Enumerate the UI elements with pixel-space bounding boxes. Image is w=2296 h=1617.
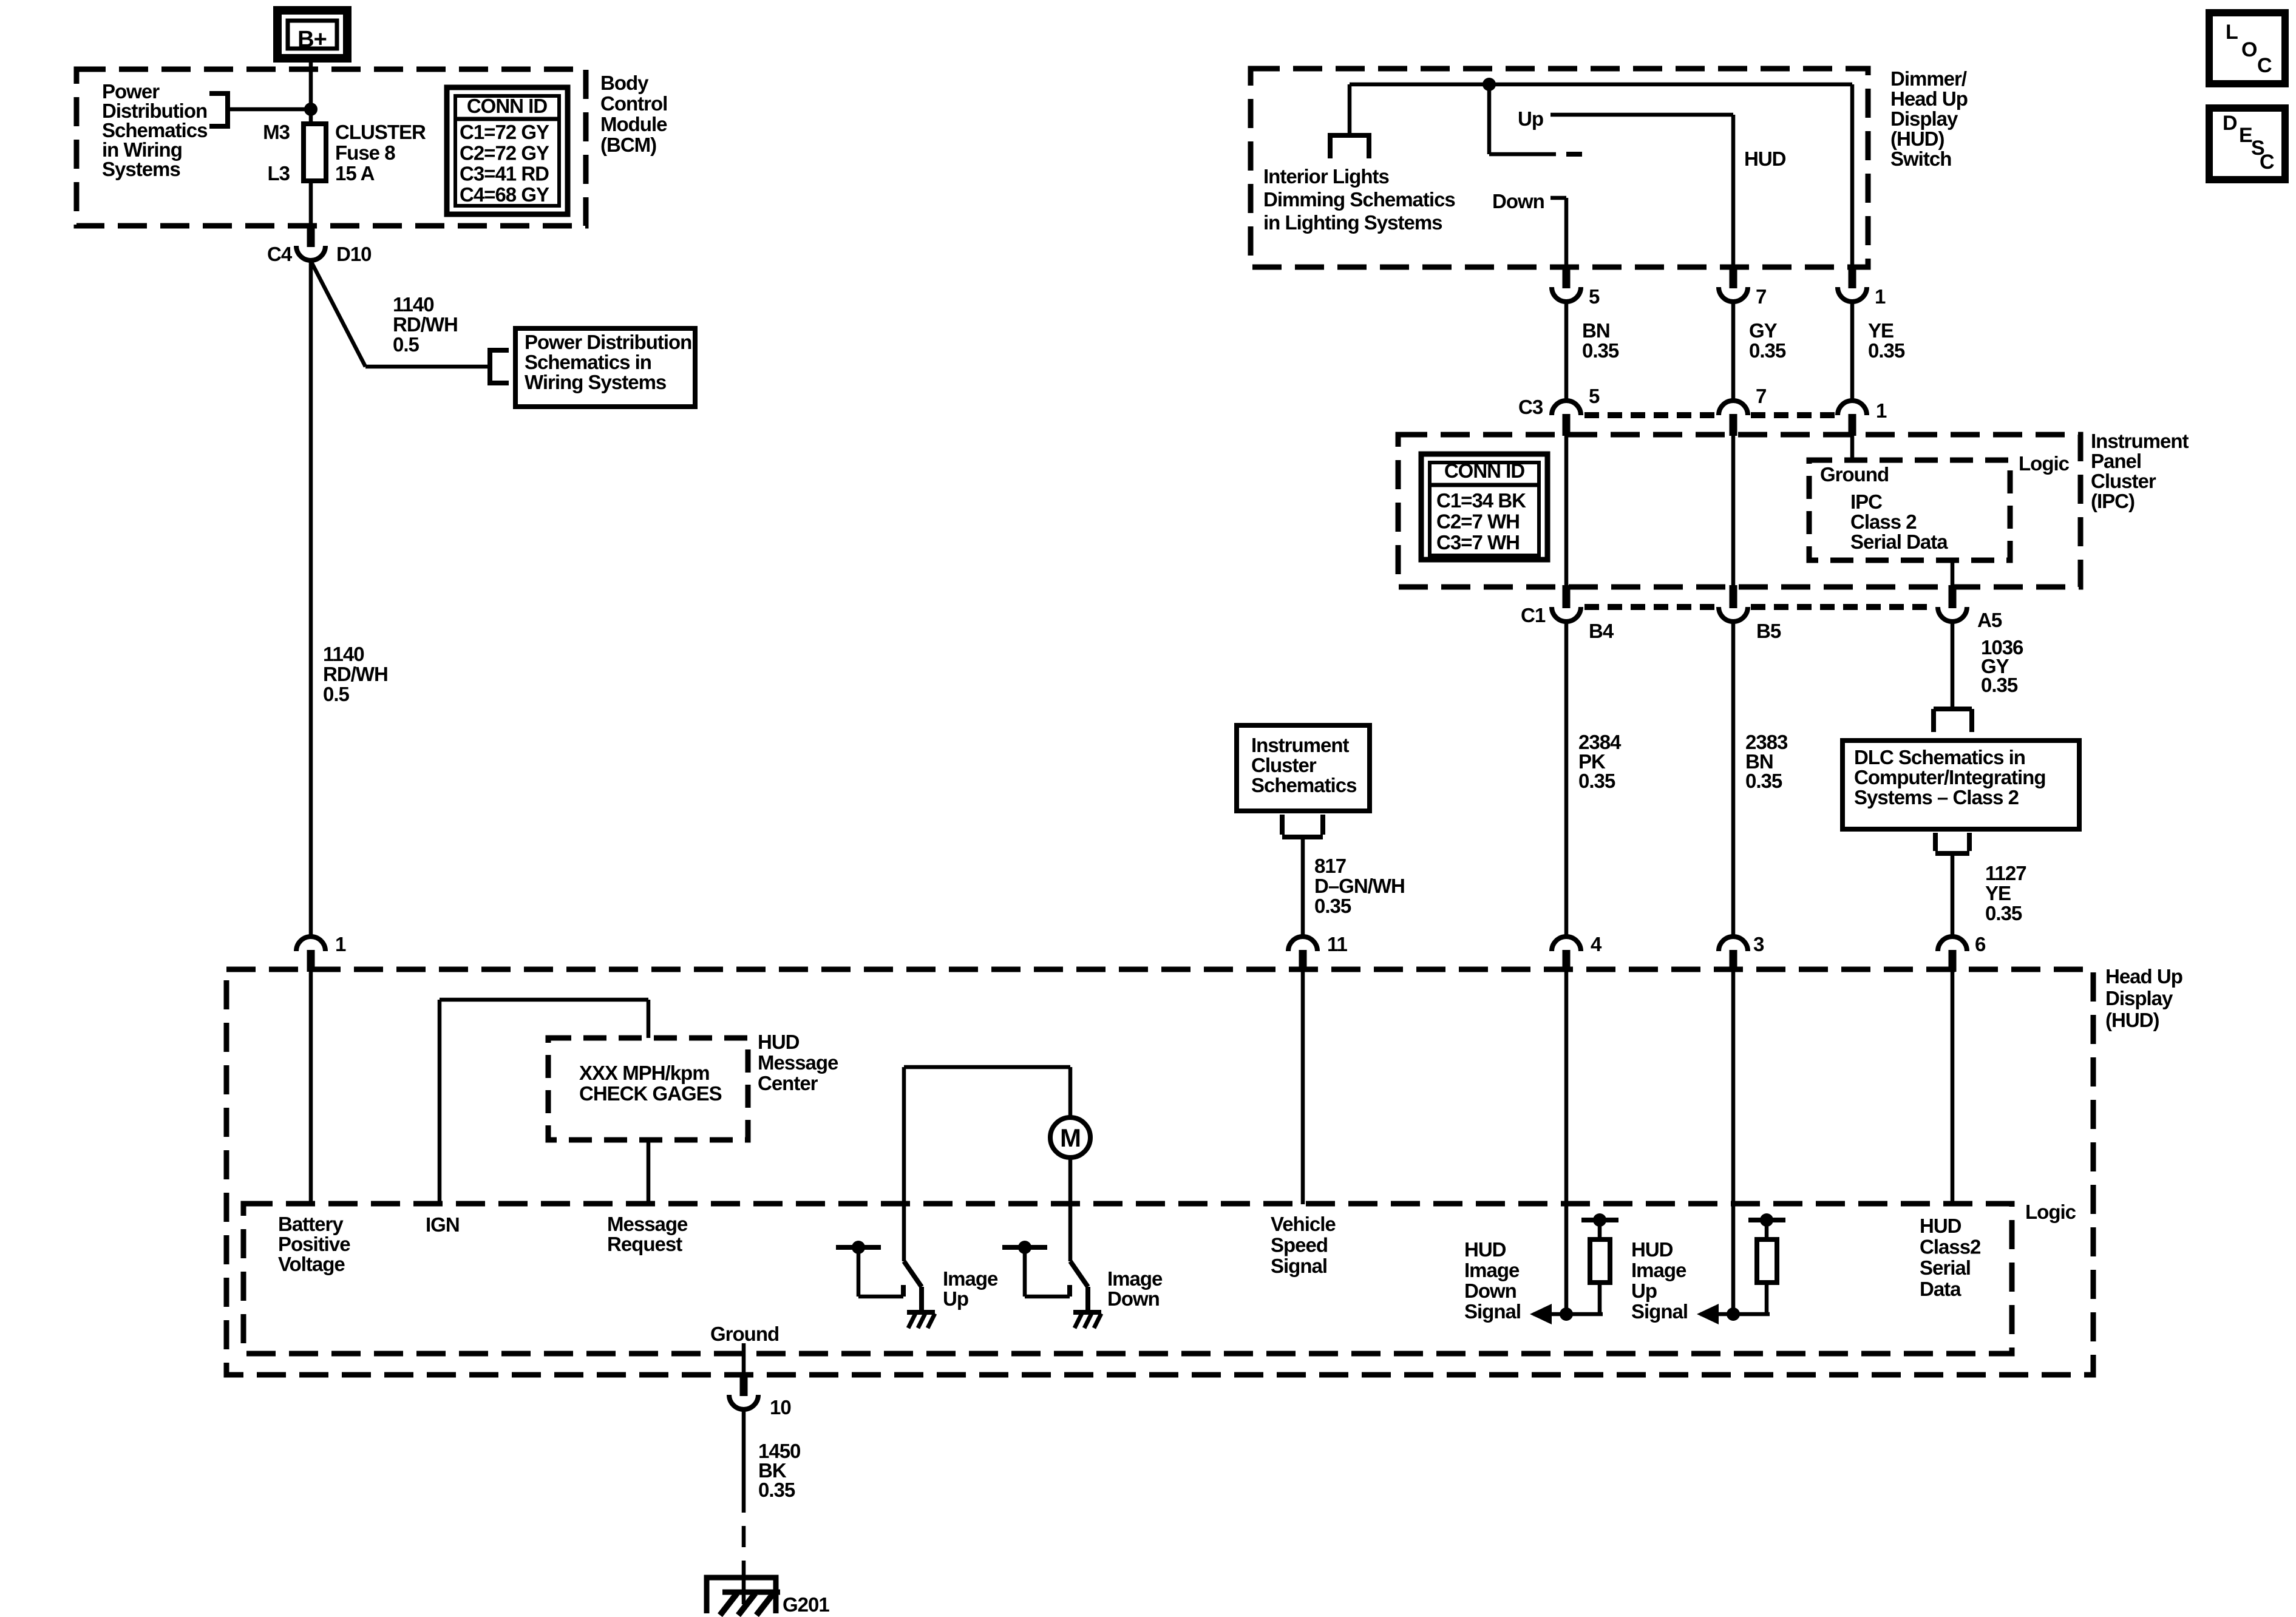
label Body Control Module (BCM) [600,72,667,156]
svg-text:817: 817 [1314,855,1346,877]
label 1140 RD/WH 0.5 (branch) [393,293,458,356]
svg-text:D10: D10 [336,243,372,265]
svg-text:RD/WH: RD/WH [393,313,458,336]
svg-text:0.35: 0.35 [1749,339,1786,362]
svg-text:Schematics: Schematics [1251,774,1356,796]
label 4 (HUD pin) [1591,933,1602,955]
arrow image up signal [1697,1304,1770,1324]
wire 1140 RD/WH 0.5 main vertical [309,259,313,937]
resistor pull-up (image down) [1581,1213,1618,1314]
connector table CONN ID (IPC) [1421,454,1547,560]
svg-text:15 A: 15 A [335,162,375,185]
wire 1140 RD/WH 0.5 diagonal branch [311,261,490,367]
svg-text:Serial: Serial [1920,1256,1971,1279]
connector pin A5 [1938,585,1967,622]
label Up [1518,107,1543,130]
wire motor loop [904,1067,1070,1261]
label GY 0.35 [1749,319,1786,362]
module box Head Up Display HUD dashed outline [226,969,2093,1375]
svg-text:G201: G201 [783,1593,829,1616]
svg-text:C1: C1 [1521,604,1546,626]
connector HUD pin 4 [1552,937,1581,972]
svg-text:Signal: Signal [1271,1255,1327,1277]
reference box Instrument Cluster Schematics [1237,725,1370,811]
svg-text:D: D [2223,112,2237,135]
wire B+ to fuse [309,58,313,124]
svg-text:Class 2: Class 2 [1850,510,1917,533]
svg-text:0.35: 0.35 [1745,770,1782,792]
svg-text:0.35: 0.35 [1868,339,1905,362]
svg-text:C3=7 WH: C3=7 WH [1436,531,1520,554]
label HUD [1744,147,1786,170]
connector table CONN ID (BCM) [447,87,568,214]
connector pin 10 ground [729,1373,758,1409]
svg-text:Instrument: Instrument [1251,734,1350,756]
svg-text:Image: Image [1464,1259,1520,1281]
svg-text:Vehicle: Vehicle [1271,1213,1336,1235]
label 1450 BK 0.35 [758,1440,800,1501]
svg-text:Center: Center [758,1072,818,1094]
resistor pull-up (image up) [1748,1213,1785,1314]
svg-text:0.35: 0.35 [1578,770,1615,792]
label Ground (HUD) [710,1323,779,1345]
svg-text:Down: Down [1464,1280,1517,1302]
label HUD Image Up Signal [1631,1238,1688,1323]
label HUD Class2 Serial Data [1920,1215,1981,1300]
svg-text:C3: C3 [1518,396,1543,418]
svg-text:C1=34 BK: C1=34 BK [1436,489,1526,512]
label B4 [1589,620,1614,642]
svg-text:YE: YE [1985,882,2011,904]
svg-text:CHECK GAGES: CHECK GAGES [579,1082,722,1105]
label 1 (switch pin) [1875,285,1886,308]
svg-text:DLC Schematics in: DLC Schematics in [1854,746,2025,768]
label XXX MPH/kpm CHECK GAGES [579,1062,722,1105]
connector C4 pin D10 [296,224,325,260]
connector HUD pin 1 [296,937,325,972]
svg-text:0.35: 0.35 [1314,895,1351,917]
wire 2384 PK 0.35 [1564,620,1569,937]
svg-text:Data: Data [1920,1278,1961,1300]
reference box DLC Schematics in Computer/Integrating Systems - Class 2 [1843,741,2079,829]
label Dimmer/ Head Up Display (HUD) Switch [1890,67,1968,170]
svg-text:C3=41 RD: C3=41 RD [460,163,549,185]
connector row C3 dashed line [1584,412,1835,418]
svg-text:Signal: Signal [1631,1300,1688,1323]
connector C3 pin 5 [1552,401,1581,436]
svg-text:Logic: Logic [2025,1201,2076,1223]
wire 1036 GY 0.35 [1951,620,1955,708]
wire HUD class2 serial data [1951,971,1955,1204]
svg-text:HUD: HUD [1464,1238,1506,1261]
logic box (HUD) dashed outline [243,1204,2012,1354]
wire bracket to node M3 [228,107,311,112]
svg-text:Module: Module [600,113,667,135]
svg-text:Positive: Positive [278,1233,350,1255]
svg-text:M3: M3 [263,121,290,143]
svg-text:IPC: IPC [1850,490,1882,513]
svg-text:1: 1 [1876,399,1887,422]
svg-text:in Lighting Systems: in Lighting Systems [1263,211,1442,234]
label Message Request [607,1213,688,1255]
label Head Up Display (HUD) [2105,965,2182,1031]
label C1 [1521,604,1546,626]
label 1127 YE 0.35 [1985,862,2026,924]
wire 1450 BK 0.35 [742,1408,746,1604]
svg-text:(HUD): (HUD) [1890,127,1944,150]
connector C1 pin B5 [1719,585,1748,622]
svg-text:Message: Message [758,1051,838,1074]
label C3 [1518,396,1543,418]
svg-text:HUD: HUD [758,1031,800,1053]
connector row C1 dashed line [1584,604,1934,610]
svg-text:(HUD): (HUD) [2105,1009,2159,1031]
label 2383 BN 0.35 [1745,731,1788,792]
svg-text:CLUSTER: CLUSTER [335,121,426,143]
connector pin 1 (switch) [1838,265,1867,302]
label Power Distribution Schematics in Wiring Systems (BCM) [102,80,207,180]
wire switch common top rail [1350,83,1852,87]
label G201 [783,1593,829,1616]
wire to Interior Lights bracket [1348,84,1352,135]
svg-text:Image: Image [1631,1259,1686,1281]
svg-text:IGN: IGN [426,1213,460,1236]
svg-text:4: 4 [1591,933,1602,955]
svg-text:Image: Image [1107,1267,1163,1290]
svg-text:Interior Lights: Interior Lights [1263,165,1389,188]
svg-text:C4=68 GY: C4=68 GY [460,183,549,206]
label Ground (IPC) [1820,463,1889,486]
svg-text:Down: Down [1107,1287,1160,1310]
svg-text:Dimmer/: Dimmer/ [1890,67,1967,90]
label 1036 GY 0.35 [1981,636,2023,696]
label B5 [1756,620,1781,642]
bracket to DLC box (top) [1934,709,1972,732]
svg-text:1140: 1140 [323,643,364,665]
svg-text:6: 6 [1975,933,1986,955]
svg-text:Battery: Battery [278,1213,344,1235]
label 5 (C3) [1589,385,1600,407]
svg-text:5: 5 [1589,385,1600,407]
svg-text:Ground: Ground [710,1323,779,1345]
label 5 (switch pin) [1589,285,1600,308]
label Logic (IPC) [2019,452,2070,475]
svg-text:0.35: 0.35 [1985,902,2022,924]
connector C3 pin 1 [1838,401,1867,436]
connector pin 7 (switch) [1719,265,1748,302]
fuse CLUSTER Fuse 8 15 A [304,124,326,181]
bracket to Interior Lights label [1330,135,1369,158]
svg-text:Computer/Integrating: Computer/Integrating [1854,766,2046,788]
label HUD Image Down Signal [1464,1238,1521,1323]
svg-text:GY: GY [1749,319,1778,342]
svg-text:B+: B+ [297,27,327,52]
svg-text:L: L [2226,21,2238,44]
svg-text:0.5: 0.5 [323,683,350,705]
svg-text:Display: Display [2105,987,2173,1009]
switch Image Up [836,1241,922,1312]
svg-text:0.35: 0.35 [1981,674,2018,696]
label 7 (C3) [1756,385,1766,407]
svg-text:Instrument: Instrument [2091,430,2189,452]
label 1 (C3) [1876,399,1887,422]
legend box LOC [2209,13,2285,84]
arrow image down signal [1530,1304,1603,1324]
label Vehicle Speed Signal [1271,1213,1336,1277]
label Battery Positive Voltage [278,1213,350,1275]
bracket to Power Distribution label [209,93,228,126]
bracket to Power Distribution Schematics box [490,350,509,383]
wire 817 D-GN/WH 0.35 [1301,837,1305,937]
wire ground stub (IPC) [1850,436,1855,460]
ground symbol (Image Down) [1073,1312,1101,1328]
wire Up contact to pin 7 [1550,115,1733,267]
svg-text:7: 7 [1756,285,1766,308]
wire YE to C3 [1850,302,1855,402]
ground symbol (Image Up) [907,1312,935,1328]
label Image Down [1107,1267,1163,1310]
label D10 [336,243,372,265]
svg-text:D–GN/WH: D–GN/WH [1314,875,1405,897]
svg-text:Up: Up [1631,1280,1657,1302]
svg-text:Voltage: Voltage [278,1253,345,1275]
display box HUD Message Center dashed outline [548,1038,748,1140]
module box Body Control Module BCM dashed outline [76,69,586,226]
svg-text:BN: BN [1582,319,1610,342]
svg-text:0.5: 0.5 [393,333,419,356]
svg-text:Up: Up [943,1287,968,1310]
wire HUD image down signal [1564,971,1569,1314]
svg-text:Head Up: Head Up [1890,87,1968,110]
svg-text:C2=72 GY: C2=72 GY [460,141,549,164]
svg-text:YE: YE [1868,319,1894,342]
svg-text:Dimming Schematics: Dimming Schematics [1263,188,1455,211]
svg-text:Up: Up [1518,107,1543,130]
wire battery feed inside HUD [309,971,313,1204]
junction dot switch common [1483,78,1496,91]
wire ground (HUD) [742,1343,746,1375]
svg-text:Wiring Systems: Wiring Systems [525,371,666,393]
svg-text:Switch: Switch [1890,147,1951,170]
wire 1127 YE 0.35 [1951,853,1955,937]
svg-text:Message: Message [607,1213,688,1235]
label 11 (HUD pin) [1327,933,1348,955]
wire GY to C3 [1731,302,1736,402]
label YE 0.35 [1868,319,1905,362]
svg-text:Display: Display [1890,107,1958,130]
junction dot node M3 feed [304,103,318,116]
svg-text:Cluster: Cluster [1251,754,1317,776]
wire IGN [440,1000,648,1204]
wire Down contact to pin 5 [1550,198,1566,267]
svg-text:Signal: Signal [1464,1300,1521,1323]
svg-text:Power Distribution: Power Distribution [525,331,691,353]
svg-text:RD/WH: RD/WH [323,663,388,685]
ground G201 symbol [707,1578,780,1615]
svg-text:11: 11 [1327,933,1348,955]
logic box (IPC) dashed outline [1809,460,2010,560]
connector HUD pin 11 [1288,937,1317,972]
svg-text:C: C [2257,54,2272,77]
svg-text:Systems: Systems [102,158,180,180]
label BN 0.35 [1582,319,1619,362]
reference box Power Distribution Schematics in Wiring Systems [515,328,695,407]
label 1 (HUD pin) [335,933,346,955]
connector HUD pin 3 [1719,937,1748,972]
svg-text:XXX MPH/kpm: XXX MPH/kpm [579,1062,710,1084]
svg-text:E: E [2239,124,2252,147]
svg-text:C2=7 WH: C2=7 WH [1436,510,1520,533]
wire vehicle speed signal [1301,971,1305,1204]
wire HUD pin 1 vertical [1850,84,1855,267]
svg-text:0.35: 0.35 [758,1479,795,1501]
svg-text:Serial Data: Serial Data [1850,531,1948,553]
power symbol B+ battery positive voltage [277,10,347,58]
module box Instrument Panel Cluster IPC dashed outline [1398,435,2080,587]
label L3 [267,162,290,185]
label 2384 PK 0.35 [1578,731,1622,792]
label 7 (switch pin) [1756,285,1766,308]
label Instrument Panel Cluster (IPC) [2091,430,2189,512]
svg-text:HUD: HUD [1920,1215,1961,1237]
svg-text:B4: B4 [1589,620,1614,642]
switch Image Down [1002,1241,1088,1312]
wire motor to image down switch [1068,1158,1073,1261]
svg-text:3: 3 [1753,933,1764,955]
label Down [1492,190,1544,212]
label IGN [426,1213,460,1236]
bracket from Instrument Cluster Schematics box [1282,815,1323,837]
svg-text:Schematics in: Schematics in [525,351,651,373]
svg-text:M: M [1060,1124,1081,1152]
label C4 [267,243,293,265]
wire HUD image up signal [1731,971,1736,1314]
svg-text:5: 5 [1589,285,1600,308]
wire 2383 BN 0.35 [1731,620,1736,937]
connector HUD pin 6 [1938,937,1967,972]
wire B5 inside IPC [1731,436,1736,586]
bracket from DLC box (bottom) [1935,833,1969,853]
svg-text:O: O [2241,38,2257,61]
svg-text:0.35: 0.35 [1582,339,1619,362]
label CLUSTER Fuse 8 15 A [335,121,426,185]
svg-text:Body: Body [600,72,649,94]
svg-text:(IPC): (IPC) [2091,490,2135,512]
svg-text:CONN ID: CONN ID [1444,459,1525,482]
svg-text:Head Up: Head Up [2105,965,2182,988]
label A5 [1977,609,2002,631]
svg-text:Ground: Ground [1820,463,1889,486]
legend box DESC [2209,108,2285,180]
label Logic (HUD) [2025,1201,2076,1223]
svg-text:B5: B5 [1756,620,1781,642]
switch wiper contact [1489,84,1582,154]
svg-text:Class2: Class2 [1920,1236,1981,1258]
label IPC Class 2 Serial Data [1850,490,1948,553]
svg-text:C1=72 GY: C1=72 GY [460,121,549,143]
svg-text:A5: A5 [1977,609,2002,631]
label HUD Message Center [758,1031,838,1094]
connector C3 pin 7 [1719,401,1748,436]
svg-text:C: C [2260,151,2274,174]
motor M [1050,1117,1090,1158]
wire Message Request [647,1140,651,1204]
svg-text:Cluster: Cluster [2091,470,2156,492]
svg-text:Speed: Speed [1271,1234,1328,1256]
svg-text:L3: L3 [267,162,290,185]
switch box Dimmer/Head Up Display (HUD) Switch dashed outline [1251,69,1868,267]
connector pin 5 (switch) [1552,265,1581,302]
label Interior Lights Dimming Schematics in Lighting Systems [1263,165,1455,234]
label M3 [263,121,290,143]
svg-text:10: 10 [770,1396,791,1419]
svg-text:1: 1 [335,933,346,955]
svg-text:Logic: Logic [2019,452,2070,475]
svg-text:7: 7 [1756,385,1766,407]
wire serial data Logic to A5 [1951,560,1955,586]
svg-text:C4: C4 [267,243,293,265]
svg-text:CONN ID: CONN ID [467,95,548,117]
svg-text:1: 1 [1875,285,1886,308]
svg-text:HUD: HUD [1744,147,1786,170]
label 1140 RD/WH 0.5 (main) [323,643,388,705]
svg-text:HUD: HUD [1631,1238,1673,1261]
svg-text:1127: 1127 [1985,862,2026,884]
label 3 (HUD pin) [1753,933,1764,955]
svg-text:Image: Image [943,1267,998,1290]
connector C1 pin B4 [1552,585,1581,622]
label 817 D-GN/WH 0.35 [1314,855,1405,917]
svg-text:1140: 1140 [393,293,434,316]
wire B4 inside IPC [1564,436,1569,586]
svg-text:(BCM): (BCM) [600,134,656,156]
svg-text:Request: Request [607,1233,682,1255]
svg-text:Panel: Panel [2091,450,2141,472]
label 6 (HUD pin) [1975,933,1986,955]
svg-text:Control: Control [600,92,667,115]
label Image Up [943,1267,998,1310]
wire BN to C3 [1564,302,1569,402]
svg-text:Systems – Class 2: Systems – Class 2 [1854,786,2019,808]
wire fuse to BCM edge [309,181,313,225]
svg-text:Fuse 8: Fuse 8 [335,141,395,164]
svg-text:Down: Down [1492,190,1544,212]
label 10 [770,1396,791,1419]
